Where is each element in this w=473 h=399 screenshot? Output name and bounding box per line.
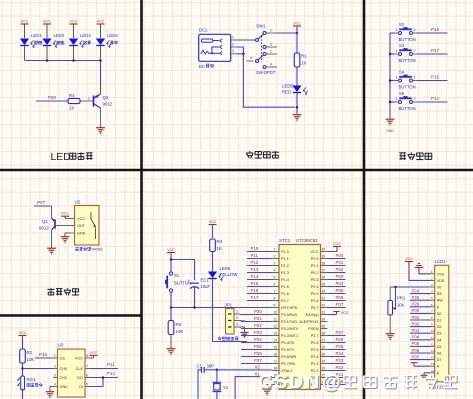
- pin U1-31 EA/Vpp: [306, 310, 328, 317]
- wire P10 to U3 CS: [35, 357, 53, 359]
- svg-text:2: 2: [414, 76, 416, 80]
- pin U1-9 RST/VPD: [272, 303, 298, 310]
- svg-text:29: 29: [322, 324, 326, 328]
- wire JP1-3 to ground: [240, 327, 245, 331]
- pin U1-22 P2.1: [311, 373, 328, 380]
- svg-text:U2: U2: [75, 200, 81, 205]
- svg-text:P07: P07: [336, 302, 344, 307]
- wire U1 EA to VCC: [328, 314, 337, 316]
- svg-text:10K: 10K: [397, 303, 405, 308]
- svg-text:D4: D4: [437, 338, 442, 342]
- svg-text:P3.4/T0: P3.4/T0: [281, 341, 294, 345]
- LED LED2: [42, 33, 64, 48]
- svg-text:23: 23: [322, 366, 326, 370]
- wire LED cathode bus: [25, 60, 101, 62]
- svg-text:VCC: VCC: [97, 19, 105, 23]
- power VCC U3: [90, 351, 98, 358]
- resistor R1: [294, 53, 307, 67]
- svg-text:P37: P37: [254, 358, 262, 363]
- wire S4 to bus: [390, 80, 395, 82]
- wire VCC to U2: [65, 217, 70, 219]
- svg-text:4: 4: [250, 56, 252, 60]
- svg-text:7: 7: [86, 364, 88, 368]
- svg-text:P24: P24: [336, 351, 344, 356]
- svg-text:2: 2: [232, 42, 234, 46]
- wire R5 to ground: [170, 335, 172, 349]
- svg-text:D2: D2: [437, 325, 442, 329]
- svg-text:5: 5: [86, 382, 88, 386]
- svg-text:VCC: VCC: [43, 19, 51, 23]
- resistor R4: [68, 93, 80, 111]
- svg-text:P01: P01: [412, 315, 420, 320]
- photoresistor RG1: [18, 376, 43, 390]
- svg-text:1: 1: [270, 28, 272, 32]
- wire U1 P0.3 net P03: [328, 279, 346, 281]
- pin U1-13 P3.3/INT1: [272, 331, 298, 338]
- wire VCC to LED3: [73, 26, 75, 38]
- ground LCD VSS: [415, 264, 423, 268]
- svg-text:P0.3: P0.3: [311, 278, 319, 282]
- svg-text:P14: P14: [431, 96, 440, 101]
- svg-text:P04: P04: [412, 335, 420, 340]
- svg-text:P02: P02: [336, 267, 344, 272]
- svg-text:STC1: STC1: [279, 238, 291, 243]
- wire U1 P1.4 net P14: [247, 279, 272, 281]
- wire U1 P3.6 net P36: [241, 356, 272, 358]
- ground Q2: [100, 126, 102, 128]
- junction DC wires: [242, 53, 245, 56]
- svg-text:10K: 10K: [27, 357, 35, 362]
- wire C2 to XTAL1: [235, 376, 272, 399]
- svg-text:P1.3: P1.3: [281, 271, 289, 275]
- svg-text:P26: P26: [336, 337, 344, 342]
- pin U1-32 P0.7: [311, 303, 328, 310]
- svg-text:R5: R5: [176, 322, 182, 327]
- svg-text:P31: P31: [254, 316, 262, 321]
- svg-text:P05: P05: [336, 288, 344, 293]
- svg-text:R1: R1: [301, 54, 307, 59]
- svg-text:2: 2: [54, 364, 56, 368]
- svg-text:ALE/PROG: ALE/PROG: [299, 320, 318, 324]
- svg-text:LCD1: LCD1: [435, 259, 447, 264]
- svg-text:P27: P27: [336, 330, 344, 335]
- wire LCD VSS to ground: [419, 268, 431, 274]
- svg-text:P2.7: P2.7: [311, 334, 319, 338]
- svg-text:P10: P10: [39, 352, 48, 357]
- svg-text:4: 4: [274, 268, 276, 272]
- IR module U2: [70, 200, 103, 252]
- svg-text:15: 15: [431, 362, 435, 366]
- wire U1 P2.2 net P22: [328, 370, 346, 372]
- pin U1-7 P1.6: [272, 289, 289, 296]
- svg-text:P35: P35: [254, 344, 262, 349]
- svg-text:P24: P24: [412, 288, 420, 293]
- pin U1-11 P3.1/TxD: [272, 317, 297, 324]
- svg-text:P06: P06: [336, 295, 344, 300]
- wire S5 to bus: [390, 101, 395, 103]
- svg-text:S3: S3: [399, 43, 405, 48]
- svg-text:VCC: VCC: [70, 19, 78, 23]
- pin U1-38 P0.1: [311, 261, 328, 268]
- junction button bus: [389, 53, 392, 56]
- svg-text:PR1: PR1: [397, 296, 406, 301]
- svg-text:DC: DC: [199, 64, 205, 69]
- capacitor C1 30P: [197, 363, 215, 373]
- watermark CSDN: [258, 371, 342, 394]
- svg-text:P17: P17: [431, 48, 440, 53]
- svg-text:35: 35: [322, 282, 326, 286]
- svg-text:25: 25: [322, 352, 326, 356]
- wire button ground bus: [389, 33, 391, 117]
- pin DC1-3: [231, 53, 237, 55]
- svg-text:2: 2: [414, 28, 416, 32]
- svg-text:CS: CS: [60, 357, 66, 361]
- pin U1-36 P0.3: [311, 275, 328, 282]
- pin U1-37 P0.2: [311, 268, 328, 275]
- svg-text:P1.1: P1.1: [281, 257, 289, 261]
- resistor R2: [20, 349, 35, 363]
- wire P00 to R4: [36, 100, 68, 102]
- svg-text:1: 1: [270, 49, 272, 53]
- wire R4 to Q2 base: [80, 100, 93, 102]
- svg-text:10uF: 10uF: [201, 284, 211, 289]
- svg-text:8: 8: [274, 296, 276, 300]
- svg-text:PSEN: PSEN: [308, 327, 319, 331]
- wire U1 P3.5 net P35: [241, 349, 272, 351]
- svg-text:14: 14: [274, 338, 278, 342]
- wire U1 P2.0 net P20: [328, 384, 346, 386]
- wire U1 P0.1 net P01: [328, 265, 346, 267]
- svg-text:3: 3: [274, 261, 276, 265]
- svg-text:1K: 1K: [217, 246, 222, 251]
- wire divider to U3 CH0: [23, 368, 54, 370]
- wire LCD pin11 net P04: [410, 339, 431, 341]
- svg-text:33: 33: [322, 296, 326, 300]
- svg-text:VCC: VCC: [310, 250, 318, 254]
- svg-text:P0.5: P0.5: [311, 292, 319, 296]
- pin U1-34 P0.5: [311, 289, 328, 296]
- svg-text:12: 12: [274, 324, 278, 328]
- svg-text:EA/Vpp: EA/Vpp: [306, 313, 319, 317]
- svg-text:YELLOW: YELLOW: [220, 272, 239, 277]
- wire DC1-2 down to ground rail: [237, 47, 295, 107]
- svg-text:VCC: VCC: [61, 212, 69, 216]
- wire VCC to LED1: [24, 26, 26, 38]
- transistor Q1 9012: [39, 206, 55, 231]
- svg-text:X2: X2: [255, 364, 261, 369]
- button S3: [395, 43, 417, 63]
- svg-text:5: 5: [274, 275, 276, 279]
- wire Q1 base to U2 OUT: [55, 225, 70, 227]
- junction DO-DI: [102, 376, 105, 379]
- svg-text:7: 7: [274, 289, 276, 293]
- header JP1 buzzer: [218, 303, 240, 341]
- svg-text:P26: P26: [412, 302, 420, 307]
- svg-text:VCC: VCC: [21, 19, 29, 23]
- wire U1 P1.6 net P16: [247, 293, 272, 295]
- ADC chip U3: [53, 343, 90, 398]
- svg-text:P01: P01: [336, 260, 344, 265]
- svg-text:GND: GND: [77, 232, 86, 236]
- MCU U1 STC89C52: [279, 238, 321, 390]
- svg-text:3: 3: [236, 322, 238, 326]
- svg-text:P03: P03: [336, 274, 344, 279]
- svg-text:P11: P11: [107, 362, 115, 367]
- svg-text:27: 27: [322, 338, 326, 342]
- wire LCD V0 to PR1: [390, 286, 430, 288]
- wire LCD pin5 net P25: [410, 299, 431, 301]
- pin U1-21 P2.0: [311, 380, 328, 387]
- svg-text:VCC: VCC: [341, 310, 349, 315]
- wire U1 P1.3 net P13: [247, 272, 272, 274]
- wire U1 P2.7 net P27: [328, 335, 346, 337]
- svg-text:P00: P00: [412, 308, 420, 313]
- svg-text:P1.4: P1.4: [281, 278, 289, 282]
- wire EC1 to RST rail: [194, 288, 196, 308]
- svg-text:P22: P22: [336, 365, 344, 370]
- svg-text:P1.2: P1.2: [281, 264, 289, 268]
- wire U1 VCC pin40: [328, 248, 338, 252]
- svg-text:1K: 1K: [69, 106, 74, 111]
- pin DC1-1: [231, 39, 237, 41]
- svg-text:JP1: JP1: [225, 303, 233, 308]
- pin U1-35 P0.4: [311, 282, 328, 289]
- pin DC1-2: [231, 46, 237, 48]
- svg-text:LED6: LED6: [220, 266, 231, 271]
- power VCC LED3: [70, 19, 78, 26]
- wire U1 P2.4 net P24: [328, 356, 346, 358]
- svg-text:28: 28: [322, 331, 326, 335]
- svg-text:VCC: VCC: [209, 220, 217, 224]
- svg-text:P05: P05: [412, 341, 420, 346]
- svg-text:DO: DO: [77, 376, 83, 380]
- wire U1 P1.1 net P11: [247, 258, 272, 260]
- wire LCD pin13 net P06: [410, 352, 431, 354]
- caption power interface: [246, 151, 279, 159]
- svg-text:P13: P13: [251, 267, 259, 272]
- svg-text:30: 30: [322, 317, 326, 321]
- wire DC1-1 to SW1: [237, 39, 255, 41]
- pin U1-14 P3.4/T0: [272, 338, 294, 345]
- pin U1-10 P3.0/RxD: [272, 310, 298, 317]
- svg-text:2: 2: [236, 316, 238, 320]
- svg-text:1: 1: [274, 247, 276, 251]
- wire junction to Y1: [216, 370, 218, 383]
- crystal Y1: [213, 382, 229, 391]
- wire U1 P3.0 net P30: [241, 314, 272, 316]
- svg-text:39: 39: [322, 254, 326, 258]
- svg-text:12: 12: [431, 342, 435, 346]
- svg-text:24: 24: [322, 359, 326, 363]
- svg-text:P3.1/TxD: P3.1/TxD: [281, 320, 297, 324]
- connector DC1: [199, 28, 231, 70]
- wire U1 P3.1 net P31: [241, 321, 272, 323]
- svg-text:Q1: Q1: [42, 219, 48, 224]
- wire U1 P2.5 net P25: [328, 349, 346, 351]
- svg-text:R4: R4: [69, 93, 75, 98]
- svg-text:P36: P36: [254, 351, 262, 356]
- pin U1-1 P1.0: [272, 247, 289, 254]
- pin U1-3 P1.2: [272, 261, 289, 268]
- wire U3 DI join DO: [90, 378, 104, 387]
- svg-text:1: 1: [236, 309, 238, 313]
- svg-text:SW-DPDT: SW-DPDT: [256, 70, 276, 75]
- pin U1-24 P2.3: [311, 359, 328, 366]
- svg-text:D1: D1: [437, 319, 442, 323]
- wire R3 to LED6: [212, 252, 214, 272]
- svg-text:P12: P12: [251, 260, 259, 265]
- wire VCC to R2: [22, 338, 24, 350]
- svg-text:MODE: MODE: [92, 248, 104, 252]
- svg-text:+: +: [188, 278, 191, 283]
- button S4: [395, 70, 417, 90]
- svg-text:VCC: VCC: [90, 351, 98, 355]
- LED LED5 RED: [282, 84, 308, 96]
- svg-text:1: 1: [396, 76, 398, 80]
- svg-text:30P: 30P: [207, 363, 215, 368]
- pin U1-40 VCC: [310, 247, 327, 254]
- svg-text:LED1: LED1: [31, 33, 42, 38]
- wire LED2 cathode to bus: [46, 46, 48, 61]
- svg-text:11: 11: [274, 317, 278, 321]
- svg-text:P15: P15: [251, 281, 259, 286]
- svg-text:P3.2/INT0: P3.2/INT0: [281, 327, 298, 331]
- ground Q1: [51, 246, 53, 248]
- svg-text:2: 2: [414, 97, 416, 101]
- svg-text:2: 2: [274, 254, 276, 258]
- svg-text:D3: D3: [437, 332, 442, 336]
- wire S3 to net P17: [417, 53, 448, 55]
- svg-text:R3: R3: [217, 239, 223, 244]
- svg-text:P3.6/WR: P3.6/WR: [281, 355, 296, 359]
- svg-text:S4: S4: [399, 70, 405, 75]
- resistor R5 10K: [168, 321, 183, 335]
- wire U1 P2.1 net P21: [328, 377, 346, 379]
- wire S3 to bus: [390, 53, 395, 55]
- svg-text:BUTTON: BUTTON: [399, 58, 416, 63]
- pin U1-16 P3.6/WR: [272, 352, 296, 359]
- wire U1 P0.4 net P04: [328, 286, 346, 288]
- svg-text:D6: D6: [437, 352, 442, 356]
- wire LCD pin8 net P01: [410, 319, 431, 321]
- junction crystal: [216, 369, 219, 372]
- resistor R3 1K: [210, 239, 223, 252]
- wire JP1-1 to MCU: [240, 314, 247, 316]
- svg-text:13: 13: [431, 349, 435, 353]
- svg-text:9012: 9012: [103, 102, 113, 107]
- button S5: [395, 91, 417, 111]
- svg-text:D5: D5: [437, 345, 442, 349]
- svg-text:4: 4: [54, 382, 56, 386]
- wire R1 to LED5: [296, 67, 298, 86]
- wire C1 to XTAL2: [204, 369, 272, 371]
- wire LCD pin14 net P07: [410, 359, 431, 361]
- wire U1 P3.4 net P34: [241, 342, 272, 344]
- wire LCD pin12 net P05: [410, 345, 431, 347]
- pin U1-39 P0.0: [311, 254, 328, 261]
- svg-text:P2.4: P2.4: [311, 355, 319, 359]
- wire S2 to bus: [390, 32, 395, 34]
- wire bus to Q2 collector: [100, 61, 102, 88]
- svg-text:15: 15: [274, 345, 278, 349]
- svg-text:VCC: VCC: [293, 21, 301, 25]
- svg-text:P07: P07: [37, 200, 46, 205]
- svg-text:P0.0: P0.0: [311, 257, 319, 261]
- pin U1-5 P1.4: [272, 275, 289, 282]
- button S1 reset: [165, 272, 191, 292]
- pin U1-15 P3.5/T1: [272, 345, 294, 352]
- wire S4 to net P15: [417, 80, 448, 82]
- svg-text:1: 1: [396, 97, 398, 101]
- svg-text:P02: P02: [412, 321, 420, 326]
- pin U1-30 ALE/PROG: [299, 317, 327, 324]
- svg-text:18: 18: [274, 366, 278, 370]
- svg-text:16: 16: [274, 352, 278, 356]
- junction reset vcc: [170, 258, 173, 261]
- pin U1-17 P3.7/RD: [272, 359, 296, 366]
- wire R2 to RG1: [22, 363, 24, 376]
- junction PR1 wiper: [394, 286, 397, 289]
- svg-text:SW1: SW1: [256, 24, 266, 29]
- pin U1-27 P2.6: [311, 338, 328, 345]
- junction RST rail: [170, 306, 173, 309]
- svg-text:34: 34: [322, 289, 326, 293]
- svg-text:S5: S5: [399, 91, 405, 96]
- svg-text:36: 36: [322, 275, 326, 279]
- svg-text:10K: 10K: [176, 329, 184, 334]
- svg-text:P3.3/INT1: P3.3/INT1: [281, 334, 298, 338]
- svg-text:P2.6: P2.6: [311, 341, 319, 345]
- wire VCC to LED4: [100, 26, 102, 38]
- svg-text:P25: P25: [336, 344, 344, 349]
- svg-text:VDD: VDD: [437, 279, 445, 283]
- pin U1-20 GND: [272, 380, 290, 387]
- svg-text:@: @: [322, 372, 341, 393]
- svg-text:P0.6: P0.6: [311, 299, 319, 303]
- power VCC EA: [334, 310, 349, 315]
- svg-text:P3.7/RD: P3.7/RD: [281, 362, 296, 366]
- svg-text:Y1: Y1: [223, 385, 229, 390]
- wire LCD K to ground: [424, 372, 431, 374]
- svg-text:1: 1: [232, 35, 234, 39]
- wire U1 P1.0 net P10: [247, 251, 272, 253]
- svg-text:8: 8: [86, 354, 88, 358]
- ground JP1: [244, 331, 246, 333]
- svg-text:BUTTON: BUTTON: [399, 85, 416, 90]
- LED LED6 YELLOW: [208, 266, 238, 281]
- wire Q1 collector to ground: [51, 230, 53, 248]
- svg-text:1: 1: [54, 354, 56, 358]
- svg-text:P16: P16: [251, 288, 259, 293]
- svg-text:LED4: LED4: [107, 33, 118, 38]
- pin U1-12 P3.2/INT0: [272, 324, 298, 331]
- switch SW1 SW-DPDT: [256, 24, 278, 75]
- svg-text:VCC: VCC: [19, 331, 27, 335]
- svg-text:P25: P25: [412, 295, 420, 300]
- pin U1-29 PSEN: [308, 324, 327, 331]
- wire Y1 down: [216, 392, 218, 399]
- svg-text:38: 38: [322, 261, 326, 265]
- LED LED4: [96, 33, 118, 48]
- svg-text:16: 16: [431, 369, 435, 373]
- svg-text:2: 2: [88, 96, 90, 100]
- wire U1 P3.2 net P32: [241, 328, 272, 330]
- pin U1-25 P2.4: [311, 352, 328, 359]
- wire VCC reset split: [170, 255, 172, 272]
- svg-text:P23: P23: [336, 358, 344, 363]
- svg-text:OUT: OUT: [77, 224, 86, 228]
- svg-text:3: 3: [54, 373, 56, 377]
